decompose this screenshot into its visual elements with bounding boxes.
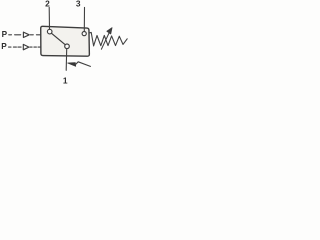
- spring adjustment arrow head: [107, 28, 112, 34]
- pilot line P lower dash a: [9, 46, 12, 48]
- pilot check arrow lower: [23, 44, 29, 49]
- spring adjustment arrow shaft: [101, 31, 110, 49]
- actuator arrow zigzag shaft: [75, 62, 90, 67]
- svg-text:2: 2: [45, 0, 50, 9]
- adjustable spring: [90, 32, 128, 46]
- svg-text:P: P: [2, 30, 8, 39]
- svg-text:1: 1: [63, 76, 68, 86]
- actuator arrow head at terminal 1: [68, 63, 76, 67]
- pilot line P upper dash b: [15, 34, 21, 36]
- pilot check arrow upper: [23, 32, 29, 37]
- svg-text:P: P: [1, 42, 7, 51]
- svg-text:3: 3: [76, 0, 81, 9]
- pilot line upper to body dash a: [30, 34, 33, 36]
- pilot line P lower dash c: [18, 46, 21, 48]
- terminal 2 lead: [48, 7, 50, 29]
- terminal 1 lead: [65, 49, 68, 71]
- pilot line P upper dash a: [9, 34, 12, 36]
- switch lever: [52, 33, 66, 44]
- pilot line P lower dash b: [13, 46, 16, 48]
- contact 3: [82, 31, 86, 35]
- terminal 3 lead: [83, 7, 85, 31]
- pilot line lower to body dash b: [34, 46, 37, 48]
- common contact 1: [65, 44, 70, 49]
- pilot line upper to body dash b: [36, 34, 40, 36]
- contact 2: [47, 29, 52, 34]
- pilot line lower to body dash a: [30, 46, 32, 48]
- pilot line lower to body dash c: [38, 46, 41, 48]
- pressure switch body U1: [41, 26, 90, 56]
